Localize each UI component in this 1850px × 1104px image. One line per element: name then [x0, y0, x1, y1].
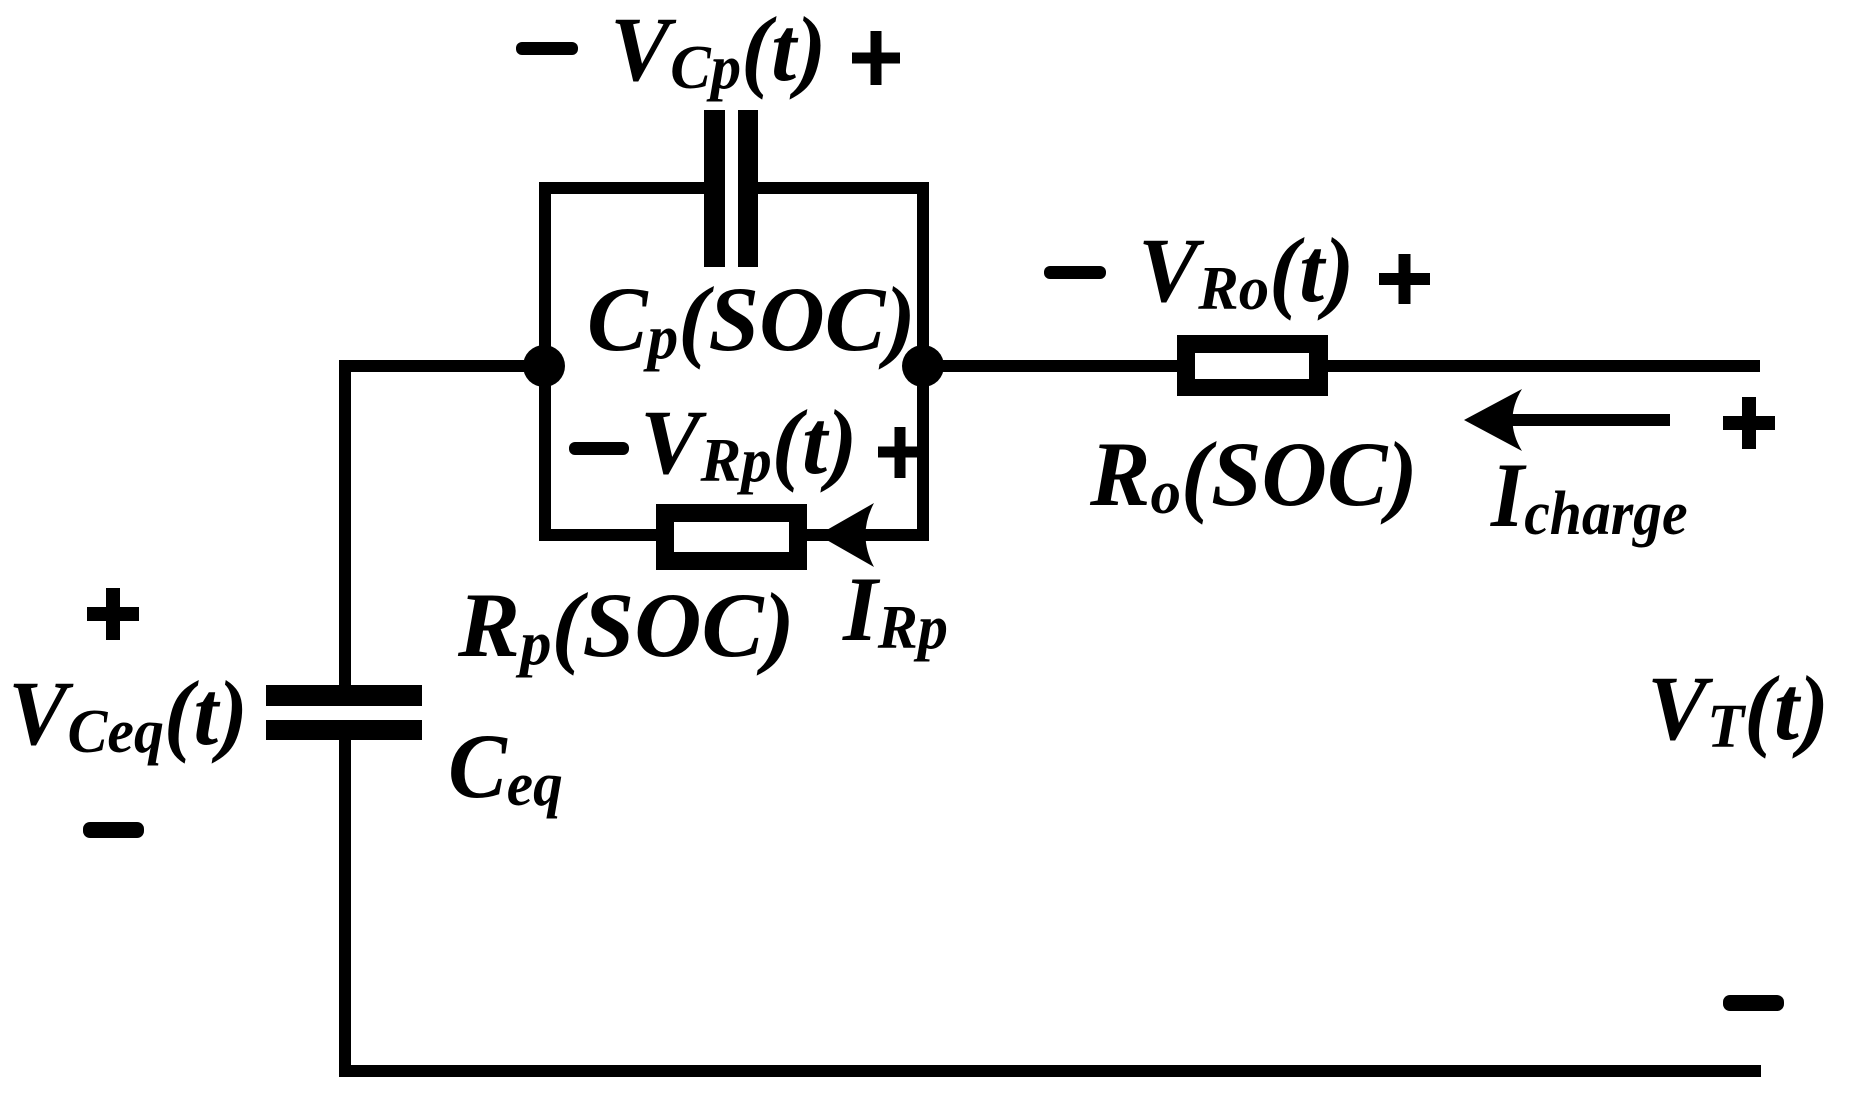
resistor Ro body: [1177, 335, 1328, 396]
capacitor Cp (SOC) plates: [704, 110, 725, 267]
label: minus of VCp(t): [516, 42, 578, 55]
arrow IRp (points left into Rp): [818, 503, 874, 567]
label Ro(SOC): [1089, 423, 1418, 527]
label IRp: [842, 558, 948, 662]
node B: right junction dot: [902, 345, 944, 387]
label VCp(t): [610, 0, 826, 102]
arrow Icharge head (points left): [1464, 389, 1522, 451]
wire: main rail left section and left branch down to Ceq top plate: [345, 366, 545, 685]
svg-text:Cp(SOC): Cp(SOC): [587, 269, 916, 373]
label: plus of VRo(t): [1379, 254, 1430, 304]
label Rp(SOC): [457, 575, 795, 677]
svg-text:Rp(SOC): Rp(SOC): [457, 575, 795, 677]
label: minus of VRo(t): [1044, 266, 1106, 279]
wire: RC box right side (top-right corner, right vertical, bottom-right segment): [752, 188, 923, 535]
resistor Rp body: [656, 504, 807, 570]
svg-text:Ro(SOC): Ro(SOC): [1089, 423, 1418, 527]
label Ceq: [448, 716, 563, 819]
label: plus terminal top right: [1723, 397, 1775, 449]
label VRo(t): [1138, 219, 1354, 323]
label Icharge: [1490, 445, 1688, 547]
label: minus of VRp(t): [569, 442, 629, 455]
label VRp(t): [640, 391, 857, 495]
node A: left junction dot: [523, 345, 565, 387]
label: minus terminal bottom right: [1723, 995, 1784, 1011]
wire: RC box left side (top-left corner, left vertical, bottom-left segment): [545, 188, 710, 535]
label: plus of VRp(t): [878, 427, 922, 478]
label: minus of VCeq(t): [83, 822, 144, 838]
label VT(t): [1647, 657, 1829, 761]
wire: main rail right section (right dot to open terminal): [923, 360, 1760, 372]
label: plus of VCp(t): [852, 31, 900, 85]
capacitor Ceq plates: [266, 685, 422, 706]
arrow Icharge shaft: [1478, 414, 1670, 426]
wire: left branch below Ceq, bottom rail: [345, 740, 1761, 1071]
label: plus of VCeq(t): [87, 588, 139, 640]
label Cp(SOC): [587, 269, 916, 373]
label VCeq(t): [8, 662, 248, 767]
